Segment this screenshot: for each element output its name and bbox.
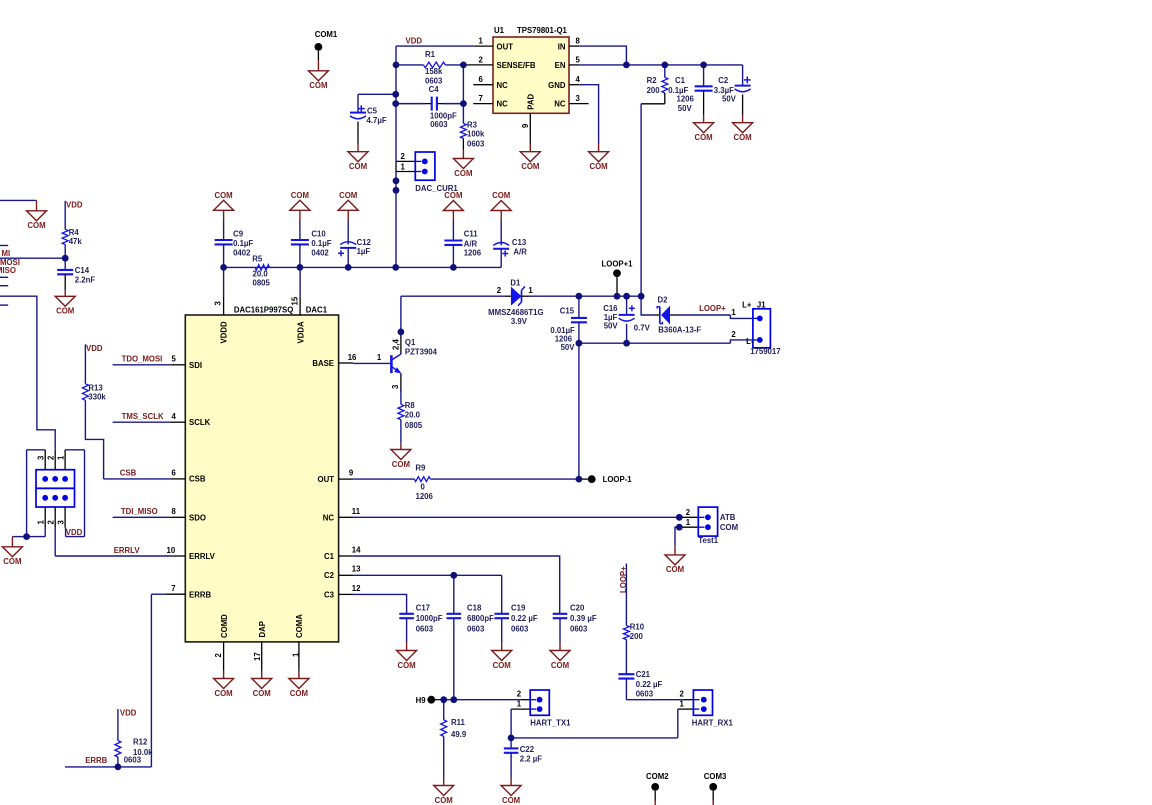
- svg-text:PAD: PAD: [527, 94, 536, 110]
- svg-text:C9: C9: [233, 230, 244, 239]
- svg-text:1: 1: [731, 308, 736, 317]
- svg-text:4: 4: [172, 412, 177, 421]
- svg-text:12: 12: [352, 584, 361, 593]
- svg-text:1: 1: [680, 699, 685, 708]
- svg-text:MI: MI: [2, 249, 11, 258]
- svg-text:COM: COM: [397, 661, 415, 670]
- svg-text:3: 3: [391, 384, 400, 389]
- svg-text:COM: COM: [502, 796, 520, 805]
- svg-text:200: 200: [630, 632, 644, 641]
- svg-text:2: 2: [686, 508, 691, 517]
- svg-text:11: 11: [352, 507, 361, 516]
- svg-text:GND: GND: [548, 81, 566, 90]
- svg-text:R5: R5: [252, 254, 263, 263]
- svg-text:0.22 µF: 0.22 µF: [636, 680, 663, 689]
- svg-text:1: 1: [377, 353, 382, 362]
- svg-text:C20: C20: [570, 604, 585, 613]
- svg-text:R1: R1: [425, 50, 436, 59]
- svg-text:C18: C18: [467, 604, 482, 613]
- svg-text:50V: 50V: [561, 343, 576, 352]
- svg-text:CSB: CSB: [189, 475, 206, 484]
- svg-text:C3: C3: [324, 590, 335, 599]
- svg-text:10: 10: [167, 546, 176, 555]
- svg-text:3.3µF: 3.3µF: [714, 86, 734, 95]
- svg-text:PZT3904: PZT3904: [405, 347, 438, 356]
- svg-text:R8: R8: [405, 401, 416, 410]
- svg-text:16: 16: [348, 353, 357, 362]
- svg-text:NC: NC: [323, 513, 335, 522]
- svg-text:14: 14: [352, 545, 361, 554]
- svg-text:R13: R13: [88, 384, 103, 393]
- svg-text:DAP: DAP: [258, 621, 267, 637]
- svg-text:SDO: SDO: [189, 513, 206, 522]
- svg-text:9: 9: [349, 469, 354, 478]
- svg-text:1759017: 1759017: [750, 347, 780, 356]
- svg-text:COM: COM: [392, 460, 410, 469]
- svg-text:0402: 0402: [233, 248, 251, 257]
- svg-text:17: 17: [253, 652, 262, 661]
- svg-text:COM: COM: [56, 307, 74, 316]
- svg-text:COM: COM: [454, 169, 472, 178]
- svg-text:C14: C14: [75, 266, 90, 275]
- svg-text:6: 6: [172, 469, 177, 478]
- svg-text:C1: C1: [324, 552, 335, 561]
- svg-text:NC: NC: [497, 99, 509, 108]
- svg-text:MISO: MISO: [0, 266, 16, 275]
- svg-text:7: 7: [171, 584, 175, 593]
- svg-text:0603: 0603: [416, 625, 434, 634]
- svg-text:VDD: VDD: [66, 528, 83, 537]
- svg-text:COM: COM: [435, 796, 453, 805]
- svg-text:COM2: COM2: [646, 772, 669, 781]
- svg-text:R12: R12: [133, 737, 148, 746]
- svg-text:C12: C12: [357, 238, 372, 247]
- svg-text:R11: R11: [451, 718, 466, 727]
- svg-text:COM3: COM3: [704, 772, 727, 781]
- svg-text:0805: 0805: [253, 278, 271, 287]
- svg-text:ERRLV: ERRLV: [189, 552, 216, 561]
- svg-text:0.22 µF: 0.22 µF: [511, 614, 538, 623]
- svg-text:0.1µF: 0.1µF: [233, 239, 253, 248]
- svg-text:0603: 0603: [636, 690, 654, 699]
- svg-text:2: 2: [214, 653, 223, 658]
- svg-text:0.1µF: 0.1µF: [668, 86, 688, 95]
- svg-text:COM1: COM1: [315, 30, 338, 39]
- svg-text:8: 8: [172, 507, 177, 516]
- svg-text:C22: C22: [520, 745, 535, 754]
- svg-text:COM: COM: [309, 81, 327, 90]
- svg-text:0402: 0402: [311, 248, 329, 257]
- svg-text:C1: C1: [675, 76, 686, 85]
- svg-text:2.2 µF: 2.2 µF: [520, 755, 542, 764]
- svg-text:COM: COM: [521, 162, 539, 171]
- svg-text:HART_RX1: HART_RX1: [692, 718, 734, 727]
- svg-text:VDD: VDD: [86, 344, 103, 353]
- svg-text:COM: COM: [493, 661, 511, 670]
- svg-text:1206: 1206: [464, 248, 482, 257]
- svg-text:ERRLV: ERRLV: [114, 546, 141, 555]
- svg-text:Q1: Q1: [405, 338, 416, 347]
- svg-text:6800pF: 6800pF: [467, 614, 494, 623]
- svg-text:L-: L-: [746, 337, 754, 346]
- svg-text:2: 2: [47, 455, 56, 460]
- svg-text:R4: R4: [69, 228, 80, 237]
- svg-text:NC: NC: [497, 81, 509, 90]
- svg-text:2: 2: [497, 286, 502, 295]
- svg-text:LOOP+1: LOOP+1: [602, 260, 634, 269]
- svg-text:47k: 47k: [69, 237, 83, 246]
- svg-text:H9: H9: [416, 696, 427, 705]
- svg-text:6: 6: [479, 75, 484, 84]
- svg-text:7: 7: [479, 94, 483, 103]
- svg-text:1000pF: 1000pF: [416, 614, 443, 623]
- svg-text:R9: R9: [415, 463, 426, 472]
- svg-text:9: 9: [521, 123, 530, 128]
- svg-text:COM: COM: [290, 689, 308, 698]
- svg-text:VDD: VDD: [66, 201, 83, 210]
- svg-text:200: 200: [647, 86, 661, 95]
- svg-text:1: 1: [291, 652, 300, 657]
- svg-text:OUT: OUT: [497, 42, 514, 51]
- svg-text:EN: EN: [555, 61, 566, 70]
- svg-text:ERRB: ERRB: [85, 756, 107, 765]
- svg-text:0603: 0603: [124, 756, 142, 765]
- svg-text:1: 1: [37, 520, 46, 525]
- svg-text:COM: COM: [3, 557, 21, 566]
- svg-text:J1: J1: [757, 301, 766, 310]
- svg-text:TDI_MISO: TDI_MISO: [121, 507, 158, 516]
- svg-text:R3: R3: [467, 120, 478, 129]
- svg-text:158k: 158k: [425, 67, 443, 76]
- svg-text:5: 5: [576, 55, 581, 64]
- svg-text:100k: 100k: [467, 130, 485, 139]
- svg-text:C11: C11: [464, 229, 479, 238]
- svg-text:2: 2: [731, 330, 736, 339]
- svg-text:4: 4: [576, 75, 581, 84]
- svg-text:1µF: 1µF: [357, 247, 371, 256]
- svg-text:3: 3: [576, 94, 581, 103]
- svg-text:ATB: ATB: [720, 513, 736, 522]
- svg-text:C10: C10: [311, 230, 326, 239]
- svg-text:MMSZ4686T1G: MMSZ4686T1G: [488, 308, 543, 317]
- svg-text:B360A-13-F: B360A-13-F: [658, 325, 701, 334]
- svg-text:LOOP+: LOOP+: [699, 304, 726, 313]
- svg-text:8: 8: [576, 37, 581, 46]
- svg-text:1: 1: [479, 37, 484, 46]
- svg-text:0603: 0603: [511, 625, 529, 634]
- svg-text:D1: D1: [510, 278, 521, 287]
- svg-text:Test1: Test1: [698, 536, 718, 545]
- svg-text:C5: C5: [367, 106, 378, 115]
- svg-text:0805: 0805: [405, 421, 423, 430]
- svg-text:COM: COM: [589, 162, 607, 171]
- svg-text:L+: L+: [742, 301, 752, 310]
- svg-text:COM: COM: [214, 689, 232, 698]
- svg-text:20.0: 20.0: [253, 269, 269, 278]
- svg-text:1206: 1206: [677, 95, 695, 104]
- svg-text:C13: C13: [512, 238, 527, 247]
- svg-text:COM: COM: [666, 565, 684, 574]
- svg-text:COM: COM: [291, 191, 309, 200]
- svg-text:1: 1: [686, 518, 691, 527]
- svg-text:COM: COM: [339, 191, 357, 200]
- svg-text:50V: 50V: [678, 104, 693, 113]
- svg-text:C21: C21: [636, 670, 651, 679]
- svg-text:VDDA: VDDA: [296, 321, 305, 343]
- svg-text:3: 3: [214, 301, 223, 306]
- svg-text:4.7µF: 4.7µF: [367, 116, 387, 125]
- svg-text:2: 2: [401, 152, 406, 161]
- svg-text:1: 1: [528, 286, 533, 295]
- svg-text:COM: COM: [733, 133, 751, 142]
- svg-text:3: 3: [37, 455, 46, 460]
- svg-text:COM: COM: [214, 191, 232, 200]
- svg-text:CSB: CSB: [120, 468, 137, 477]
- svg-text:DAC161P997SQ: DAC161P997SQ: [234, 306, 293, 315]
- svg-text:NC: NC: [554, 99, 566, 108]
- svg-text:COM: COM: [720, 523, 738, 532]
- svg-text:2: 2: [680, 690, 685, 699]
- svg-text:3: 3: [56, 520, 65, 525]
- svg-text:SENSE/FB: SENSE/FB: [497, 61, 536, 70]
- svg-text:2: 2: [479, 55, 484, 64]
- svg-text:5: 5: [172, 355, 177, 364]
- svg-text:TDO_MOSI: TDO_MOSI: [122, 354, 163, 363]
- svg-text:C4: C4: [429, 85, 440, 94]
- svg-text:DAC_CUR1: DAC_CUR1: [415, 184, 458, 193]
- svg-text:1: 1: [56, 455, 65, 460]
- svg-text:2.2nF: 2.2nF: [75, 276, 96, 285]
- svg-text:C15: C15: [560, 307, 575, 316]
- svg-text:C2: C2: [718, 76, 729, 85]
- svg-text:C2: C2: [324, 571, 335, 580]
- svg-text:R2: R2: [647, 76, 658, 85]
- svg-text:1: 1: [517, 699, 522, 708]
- svg-text:A/R: A/R: [464, 240, 478, 249]
- svg-text:50V: 50V: [604, 321, 619, 330]
- svg-text:13: 13: [352, 565, 361, 574]
- svg-text:2: 2: [47, 520, 56, 525]
- svg-text:D2: D2: [658, 296, 669, 305]
- svg-text:0.7V: 0.7V: [634, 323, 651, 332]
- svg-text:R10: R10: [630, 623, 645, 632]
- svg-text:LOOP-1: LOOP-1: [603, 475, 633, 484]
- svg-text:0603: 0603: [430, 120, 448, 129]
- svg-text:0603: 0603: [425, 76, 443, 85]
- svg-text:COM: COM: [349, 162, 367, 171]
- svg-text:IN: IN: [558, 42, 566, 51]
- svg-text:COM: COM: [27, 221, 45, 230]
- svg-text:COM: COM: [694, 133, 712, 142]
- svg-text:49.9: 49.9: [451, 730, 467, 739]
- svg-text:C19: C19: [511, 604, 526, 613]
- svg-text:2: 2: [517, 690, 522, 699]
- svg-text:0603: 0603: [570, 625, 588, 634]
- svg-text:0: 0: [421, 483, 426, 492]
- svg-text:COMA: COMA: [295, 614, 304, 638]
- svg-text:15: 15: [291, 296, 300, 305]
- svg-text:VDDD: VDDD: [220, 321, 229, 343]
- svg-text:C17: C17: [416, 604, 430, 613]
- svg-text:VDD: VDD: [120, 708, 137, 717]
- svg-text:0603: 0603: [467, 139, 485, 148]
- svg-text:3.9V: 3.9V: [511, 317, 528, 326]
- svg-text:LOOP+: LOOP+: [619, 566, 628, 593]
- svg-text:U1: U1: [494, 26, 505, 35]
- svg-text:OUT: OUT: [318, 475, 335, 484]
- svg-text:A/R: A/R: [513, 248, 527, 257]
- svg-text:TMS_SCLK: TMS_SCLK: [122, 412, 164, 421]
- svg-text:2,4: 2,4: [391, 338, 400, 350]
- svg-text:1000pF: 1000pF: [430, 111, 457, 120]
- svg-text:0.39 µF: 0.39 µF: [570, 614, 597, 623]
- svg-text:COM: COM: [492, 191, 510, 200]
- svg-text:BASE: BASE: [312, 359, 334, 368]
- svg-text:0603: 0603: [467, 625, 485, 634]
- svg-text:0.1µF: 0.1µF: [311, 239, 331, 248]
- svg-text:COM: COM: [253, 689, 271, 698]
- svg-text:COM: COM: [551, 661, 569, 670]
- svg-text:20.0: 20.0: [405, 411, 421, 420]
- svg-text:HART_TX1: HART_TX1: [530, 718, 571, 727]
- svg-text:TPS79801-Q1: TPS79801-Q1: [517, 26, 568, 35]
- svg-text:ERRB: ERRB: [189, 590, 211, 599]
- svg-text:VDD: VDD: [406, 37, 423, 46]
- svg-text:50V: 50V: [722, 95, 737, 104]
- svg-text:1: 1: [401, 162, 406, 171]
- svg-text:330k: 330k: [88, 393, 106, 402]
- svg-text:SCLK: SCLK: [189, 418, 211, 427]
- svg-text:SDI: SDI: [189, 361, 202, 370]
- svg-text:DAC1: DAC1: [306, 306, 328, 315]
- svg-text:COMD: COMD: [220, 614, 229, 638]
- svg-text:1206: 1206: [416, 492, 434, 501]
